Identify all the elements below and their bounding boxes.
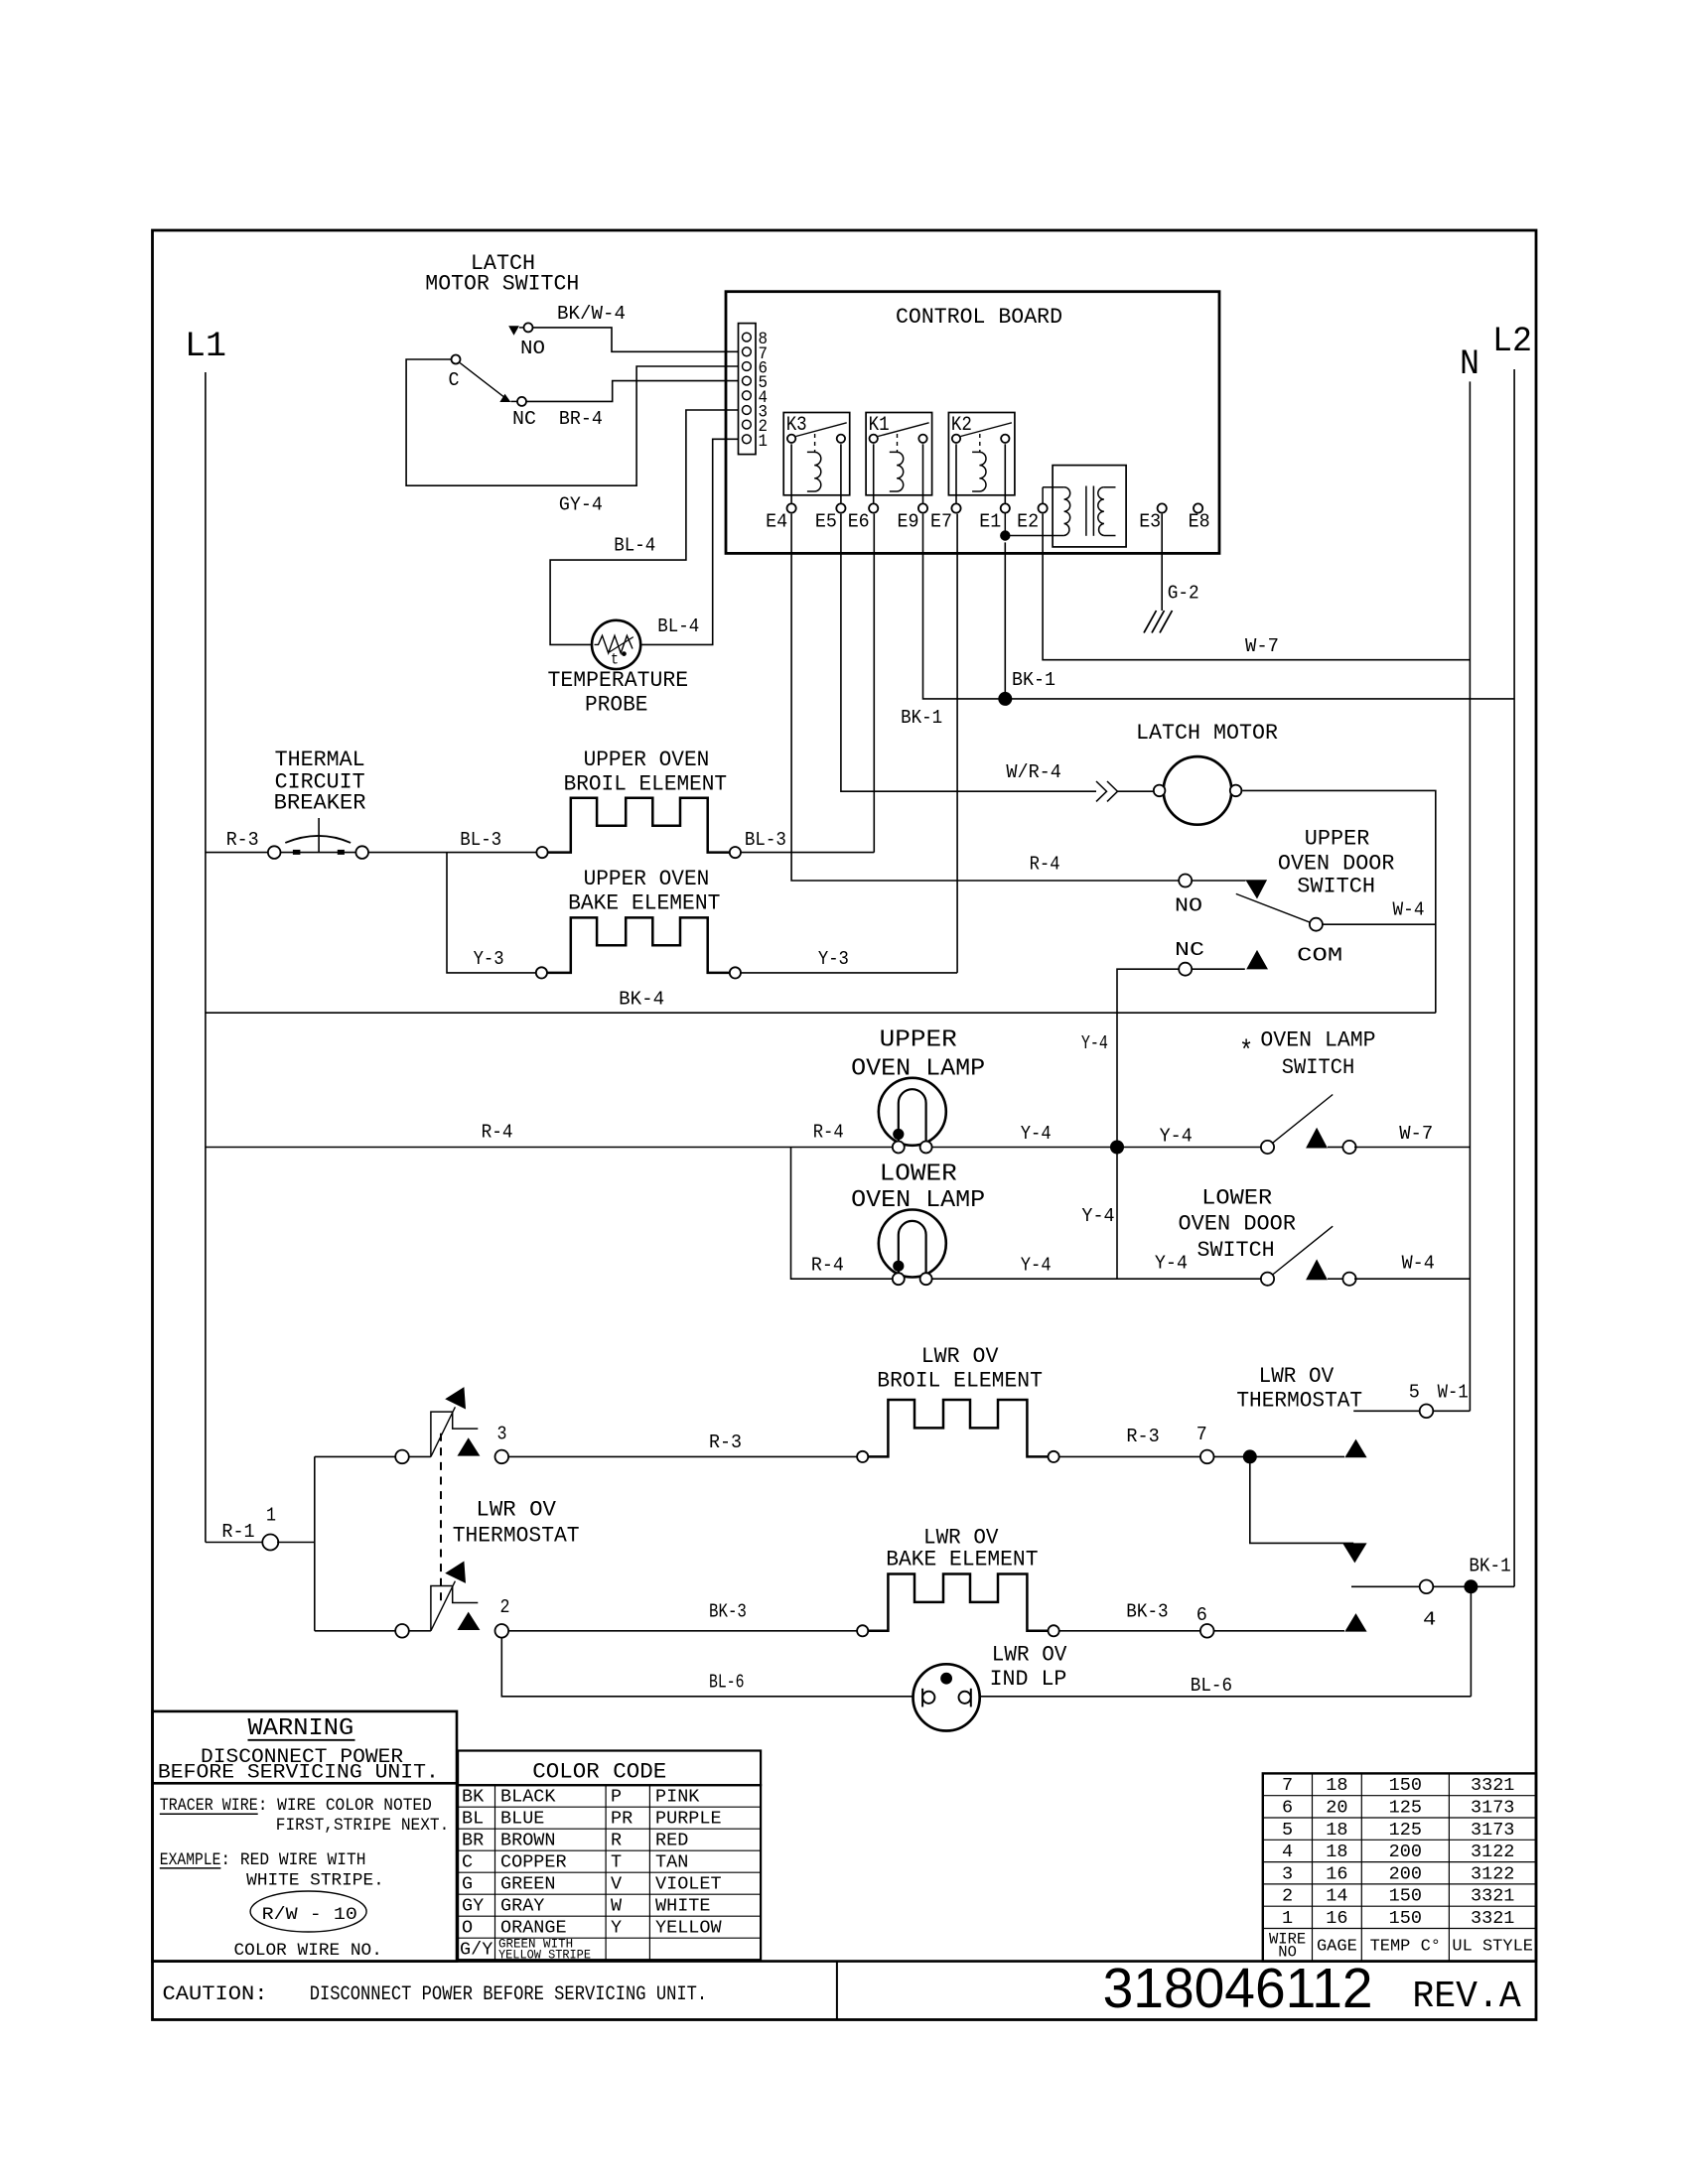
svg-text:BK-1: BK-1: [901, 707, 942, 729]
svg-text:150: 150: [1389, 1775, 1422, 1796]
svg-text:20: 20: [1326, 1798, 1347, 1819]
wire Y-4 lower lamp line: [932, 1148, 1262, 1280]
wire L1 rail: [205, 372, 207, 1543]
svg-text:BK: BK: [462, 1787, 485, 1808]
lwr ov thermostat switch upper (3): [395, 1387, 508, 1463]
svg-text:BLACK: BLACK: [500, 1787, 556, 1808]
svg-text:MOTOR SWITCH: MOTOR SWITCH: [425, 272, 579, 297]
svg-text:R-4: R-4: [813, 1122, 844, 1144]
thermal circuit breaker CB1: [268, 748, 368, 859]
wire R-4 E4 to door switch NO: [791, 514, 1180, 881]
svg-text:L1: L1: [185, 327, 226, 366]
svg-text:Y-4: Y-4: [1081, 1205, 1114, 1227]
svg-text:BREAKER: BREAKER: [274, 791, 366, 816]
wire BL-6 lamp to junction: [980, 1586, 1472, 1697]
svg-text:1: 1: [759, 432, 769, 452]
node N: [1460, 344, 1479, 384]
svg-text:BK-1: BK-1: [1469, 1555, 1510, 1576]
svg-text:BL-3: BL-3: [460, 829, 501, 851]
svg-text:R: R: [611, 1831, 622, 1851]
svg-text:YELLOW: YELLOW: [655, 1918, 723, 1939]
lwr ov broil element R3: [857, 1344, 1059, 1462]
svg-text:R-3: R-3: [709, 1432, 742, 1453]
svg-text:E1: E1: [979, 511, 1001, 533]
temperature probe RT1: [548, 620, 689, 718]
wire W-4 COM to rail: [1322, 899, 1435, 925]
svg-text:3: 3: [1282, 1863, 1293, 1884]
svg-text:5: 5: [1409, 1382, 1420, 1404]
svg-text:THERMOSTAT: THERMOSTAT: [453, 1524, 580, 1549]
wire GY-4: [406, 359, 738, 516]
svg-text:BL-6: BL-6: [709, 1672, 745, 1694]
svg-text:R-4: R-4: [811, 1255, 844, 1277]
svg-text:Y-4: Y-4: [1081, 1032, 1108, 1054]
upper oven broil element R1: [536, 748, 741, 858]
wire BL-4 pin3 to probe: [550, 410, 738, 644]
svg-text:UPPER: UPPER: [880, 1027, 957, 1054]
wire E1 to transformer / junction: [1000, 513, 1053, 541]
svg-text:BR-4: BR-4: [559, 408, 603, 430]
wire N rail: [1469, 381, 1471, 1411]
svg-text:16: 16: [1326, 1863, 1347, 1884]
wire G-2: [1162, 514, 1199, 611]
board terminals E4 E5 E6 E9 E7 E1 E2 E3 E8: [766, 503, 1210, 532]
svg-text:SWITCH: SWITCH: [1297, 875, 1375, 899]
svg-text:W-4: W-4: [1393, 899, 1425, 921]
relay K1: [866, 413, 932, 503]
wire motor to W-4 rail: [1242, 790, 1436, 1013]
transformer T1: [1053, 466, 1126, 547]
svg-text:t: t: [611, 650, 619, 668]
thermostat contact triangle (down): [1342, 1543, 1367, 1563]
svg-text:4: 4: [1282, 1842, 1293, 1862]
svg-text:BEFORE SERVICING UNIT.: BEFORE SERVICING UNIT.: [158, 1762, 439, 1785]
svg-text:BK-3: BK-3: [1126, 1600, 1168, 1622]
wire BK-1 terminal 4 to L2: [1351, 1555, 1514, 1630]
svg-text:N: N: [1460, 344, 1479, 384]
svg-text:150: 150: [1389, 1908, 1422, 1929]
svg-text:R-4: R-4: [1030, 853, 1060, 875]
svg-text:O: O: [462, 1918, 473, 1939]
svg-text:BROWN: BROWN: [500, 1831, 556, 1851]
svg-text:125: 125: [1389, 1820, 1422, 1841]
svg-text:BL: BL: [462, 1809, 484, 1830]
svg-text:200: 200: [1389, 1842, 1422, 1862]
svg-text:UL STYLE: UL STYLE: [1452, 1938, 1533, 1957]
terminal 2 label: [500, 1596, 510, 1618]
svg-text:NO: NO: [520, 338, 545, 359]
color wire no caption: [234, 1941, 382, 1961]
svg-text:*: *: [1239, 1036, 1253, 1067]
junction E1/BK-1: [998, 692, 1012, 706]
svg-text:V: V: [611, 1874, 622, 1895]
junction BK-1 / BL-6: [1464, 1579, 1477, 1593]
wire W-4 lower switch to N: [1354, 1252, 1470, 1279]
thermostat link (dashed): [440, 1433, 442, 1606]
svg-text:E7: E7: [930, 511, 952, 533]
wire BL-3 breaker to broil: [368, 829, 536, 853]
wire R-3 thermostat to lwr broil: [508, 1432, 857, 1456]
svg-text:: WIRE COLOR NOTED: : WIRE COLOR NOTED: [258, 1796, 432, 1816]
svg-text:THERMOSTAT: THERMOSTAT: [1236, 1389, 1362, 1414]
svg-text:REV.A: REV.A: [1412, 1976, 1520, 2018]
svg-text:2: 2: [1282, 1886, 1293, 1907]
svg-text:6: 6: [1282, 1798, 1293, 1819]
svg-text:LWR OV: LWR OV: [1259, 1364, 1335, 1389]
svg-text:2: 2: [500, 1596, 510, 1618]
svg-text:3: 3: [497, 1423, 507, 1444]
svg-text:18: 18: [1326, 1842, 1347, 1862]
svg-text:318046112: 318046112: [1103, 1957, 1373, 2020]
junction at terminal 7: [1243, 1449, 1257, 1463]
svg-text:3321: 3321: [1471, 1908, 1514, 1929]
svg-text:IND LP: IND LP: [990, 1667, 1067, 1692]
wire Y-4 NC down: [1081, 969, 1180, 1147]
svg-text:7: 7: [1196, 1424, 1207, 1445]
wire BL-4 probe to pin1: [640, 439, 738, 644]
wire BL-3 broil to E6: [741, 514, 874, 853]
svg-text:BK-1: BK-1: [1012, 669, 1055, 691]
upper oven bake element R2: [536, 867, 741, 978]
svg-text:G: G: [462, 1874, 473, 1895]
terminal 3 label: [497, 1423, 507, 1444]
lwr ov bake element R4: [857, 1525, 1059, 1636]
lwr ov thermostat switch lower (2): [395, 1562, 508, 1638]
svg-text:G/Y: G/Y: [460, 1940, 492, 1961]
svg-text:14: 14: [1326, 1886, 1347, 1907]
wire gauge table: [1263, 1773, 1536, 1961]
svg-text:TRACER WIRE: TRACER WIRE: [160, 1796, 258, 1816]
svg-text:EXAMPLE: EXAMPLE: [160, 1850, 221, 1870]
svg-text:E3: E3: [1139, 511, 1161, 533]
thermostat contact triangle (up, broil): [1344, 1439, 1366, 1458]
wire terminal1 to thermostat branches: [277, 1456, 395, 1630]
svg-text:BR: BR: [462, 1831, 484, 1851]
svg-text:W-4: W-4: [1402, 1252, 1435, 1274]
svg-text:TEMPERATURE: TEMPERATURE: [548, 668, 689, 693]
svg-text:Y-3: Y-3: [474, 948, 504, 970]
svg-text:TEMP C°: TEMP C°: [1370, 1938, 1441, 1957]
svg-text:G-2: G-2: [1168, 583, 1199, 605]
terminal 6: [1196, 1604, 1214, 1638]
svg-text:E9: E9: [898, 511, 919, 533]
svg-text:LWR OV: LWR OV: [476, 1498, 556, 1523]
svg-text:Y-4: Y-4: [1021, 1123, 1052, 1145]
svg-text:GREEN: GREEN: [500, 1874, 556, 1895]
svg-text:GAGE: GAGE: [1317, 1938, 1357, 1957]
color code table: [458, 1751, 761, 1963]
svg-text:Y: Y: [611, 1918, 622, 1939]
upper oven lamp DS1: [851, 1027, 985, 1154]
svg-text:3122: 3122: [1471, 1842, 1514, 1862]
svg-text:W/R-4: W/R-4: [1006, 761, 1061, 783]
svg-text:GY: GY: [462, 1896, 484, 1917]
svg-text:OVEN LAMP: OVEN LAMP: [1260, 1028, 1375, 1053]
junction Y-4: [1110, 1141, 1124, 1155]
svg-text:16: 16: [1326, 1908, 1347, 1929]
svg-text:PROBE: PROBE: [585, 693, 648, 718]
svg-text:CAUTION:: CAUTION:: [163, 1983, 268, 2006]
svg-text:COPPER: COPPER: [500, 1852, 567, 1873]
control board box: [726, 292, 1219, 554]
svg-text:W-1: W-1: [1438, 1382, 1469, 1404]
wire W/R-4 E5 to motor: [841, 514, 1153, 802]
lower oven door switch S4: [1179, 1186, 1356, 1286]
ground symbol: [1144, 611, 1173, 633]
wire BR-4: [526, 381, 739, 431]
border frame: [153, 230, 1537, 2020]
terminal 1: [262, 1504, 278, 1550]
svg-text:1: 1: [1282, 1908, 1293, 1929]
svg-text:RED: RED: [655, 1831, 688, 1851]
wire E2 to transformer primary: [1043, 487, 1053, 504]
svg-text:UPPER OVEN: UPPER OVEN: [584, 867, 710, 891]
svg-text:OVEN DOOR: OVEN DOOR: [1179, 1212, 1297, 1237]
wire R-4 upper lamp line: [206, 1122, 893, 1148]
wire R-3 L1 to breaker: [206, 829, 268, 853]
svg-text:LOWER: LOWER: [1201, 1186, 1272, 1211]
warning box: [153, 1711, 458, 1962]
svg-text:18: 18: [1326, 1820, 1347, 1841]
svg-text:GY-4: GY-4: [559, 494, 603, 516]
svg-text:W-7: W-7: [1245, 635, 1279, 657]
wire BL-6 terminal2 to lamp: [501, 1638, 913, 1697]
caution strip: [153, 1962, 1537, 2020]
svg-text:TAN: TAN: [655, 1852, 688, 1873]
svg-text:BLUE: BLUE: [500, 1809, 544, 1830]
svg-text:W-7: W-7: [1399, 1123, 1433, 1145]
svg-text:BK-3: BK-3: [709, 1601, 747, 1623]
upper oven door switch S2: [1175, 826, 1394, 975]
svg-text:UPPER: UPPER: [1305, 826, 1370, 851]
svg-text:LATCH MOTOR: LATCH MOTOR: [1136, 721, 1278, 746]
oven lamp switch S3: [1239, 1028, 1376, 1155]
svg-text:C: C: [449, 369, 460, 391]
svg-text:K1: K1: [869, 414, 890, 437]
svg-text:E8: E8: [1189, 511, 1210, 533]
latch motor M1: [1136, 721, 1278, 825]
svg-text:DISCONNECT POWER BEFORE SERVIC: DISCONNECT POWER BEFORE SERVICING UNIT.: [310, 1983, 708, 2006]
svg-text:NC: NC: [1175, 939, 1204, 961]
svg-text:R-3: R-3: [226, 829, 259, 851]
svg-text:SWITCH: SWITCH: [1282, 1055, 1354, 1080]
wire R-4 branch to lower lamp: [791, 1148, 893, 1280]
svg-text:K2: K2: [951, 414, 972, 437]
svg-text:E5: E5: [815, 511, 837, 533]
wire BK-4 L1 to W-4 rail: [206, 988, 1436, 1013]
svg-text:5: 5: [1282, 1820, 1293, 1841]
svg-text:PURPLE: PURPLE: [655, 1809, 722, 1830]
svg-text:3122: 3122: [1471, 1863, 1514, 1884]
svg-text:7: 7: [1282, 1775, 1293, 1796]
wire W-1 terminal 5 to N: [1353, 1382, 1470, 1418]
wire Y-4 lamp to junction: [932, 1123, 1262, 1148]
svg-text:1: 1: [266, 1504, 276, 1526]
svg-text:COM: COM: [1297, 945, 1342, 967]
wire junction7 down to NC contact: [1250, 1456, 1353, 1543]
svg-text:R-1: R-1: [221, 1521, 254, 1543]
latch motor switch label: [425, 251, 579, 297]
svg-text:VIOLET: VIOLET: [655, 1874, 722, 1895]
wire BK/W-4: [533, 303, 739, 351]
svg-text:150: 150: [1389, 1886, 1422, 1907]
thermostat contact triangle (up, bake): [1344, 1613, 1366, 1632]
terminal 7: [1196, 1424, 1214, 1463]
wire R-1 L1 to terminal 1: [206, 1521, 264, 1543]
svg-text:R-3: R-3: [1126, 1426, 1159, 1447]
svg-text:: RED WIRE WITH: : RED WIRE WITH: [220, 1850, 365, 1870]
relay K3: [783, 413, 850, 503]
svg-text:CONTROL BOARD: CONTROL BOARD: [896, 305, 1062, 330]
svg-text:WHITE: WHITE: [655, 1896, 711, 1917]
svg-text:BK/W-4: BK/W-4: [557, 303, 626, 325]
svg-text:4: 4: [1423, 1609, 1436, 1631]
svg-text:WHITE STRIPE.: WHITE STRIPE.: [246, 1870, 384, 1890]
svg-text:200: 200: [1389, 1863, 1422, 1884]
lwr ov thermostat label (right): [1236, 1364, 1362, 1413]
wire Y-3 bake to E7: [741, 514, 957, 973]
svg-text:BROIL ELEMENT: BROIL ELEMENT: [564, 772, 728, 797]
svg-text:R-4: R-4: [482, 1122, 513, 1144]
svg-text:LWR OV: LWR OV: [992, 1642, 1067, 1667]
wire W-7 lamp switch to N: [1354, 1123, 1470, 1148]
svg-text:W: W: [611, 1896, 623, 1917]
lwr ov indicator lamp DS3: [914, 1642, 1068, 1730]
svg-text:18: 18: [1326, 1775, 1347, 1796]
svg-text:SWITCH: SWITCH: [1197, 1238, 1275, 1263]
svg-text:L2: L2: [1492, 322, 1532, 361]
svg-text:LOWER: LOWER: [880, 1161, 957, 1188]
svg-text:BL-3: BL-3: [745, 829, 786, 851]
svg-text:3321: 3321: [1471, 1886, 1514, 1907]
node L2: [1492, 322, 1532, 361]
svg-text:3173: 3173: [1471, 1798, 1514, 1819]
svg-text:R/W - 10: R/W - 10: [262, 1905, 357, 1925]
svg-text:E2: E2: [1017, 511, 1039, 533]
svg-text:C: C: [462, 1852, 473, 1873]
svg-text:125: 125: [1389, 1798, 1422, 1819]
svg-text:BK-4: BK-4: [619, 988, 664, 1010]
svg-text:UPPER OVEN: UPPER OVEN: [584, 748, 710, 772]
svg-text:BL-6: BL-6: [1191, 1675, 1232, 1697]
wire terminal 6 to thermostat contact: [1214, 1630, 1345, 1632]
svg-text:FIRST,STRIPE NEXT.: FIRST,STRIPE NEXT.: [276, 1816, 450, 1836]
svg-text:BAKE ELEMENT: BAKE ELEMENT: [886, 1548, 1038, 1572]
svg-text:BAKE ELEMENT: BAKE ELEMENT: [568, 891, 720, 916]
wire BK-3 lwr bake to terminal 6: [1059, 1600, 1200, 1630]
svg-text:E4: E4: [766, 511, 787, 533]
svg-text:3321: 3321: [1471, 1775, 1514, 1796]
svg-text:E6: E6: [848, 511, 870, 533]
svg-text:LWR OV: LWR OV: [921, 1344, 1000, 1369]
svg-text:Y-4: Y-4: [1155, 1252, 1188, 1274]
relay K2: [948, 413, 1015, 503]
svg-text:K3: K3: [786, 414, 807, 437]
wire terminal 7 to thermostat contact: [1214, 1455, 1345, 1457]
wire W-7 E2 to N: [1043, 514, 1470, 660]
svg-text:T: T: [611, 1852, 622, 1873]
svg-text:NO: NO: [1175, 895, 1202, 917]
svg-text:NC: NC: [512, 408, 536, 430]
svg-text:ORANGE: ORANGE: [500, 1918, 567, 1939]
svg-text:COLOR WIRE NO.: COLOR WIRE NO.: [234, 1941, 382, 1961]
svg-text:Y-4: Y-4: [1160, 1125, 1193, 1147]
node L1: [185, 327, 226, 366]
lwr ov thermostat label (left): [453, 1498, 580, 1549]
svg-text:PR: PR: [611, 1809, 633, 1830]
svg-text:6: 6: [1196, 1604, 1207, 1626]
svg-text:BL-4: BL-4: [614, 534, 655, 556]
svg-text:PINK: PINK: [655, 1787, 700, 1808]
latch motor switch S1: [449, 323, 546, 430]
svg-text:WARNING: WARNING: [248, 1715, 354, 1742]
example wire code R/W - 10: [250, 1891, 366, 1932]
svg-text:P: P: [611, 1787, 622, 1808]
tracer wire note: [160, 1796, 450, 1890]
lower oven lamp DS2: [851, 1161, 985, 1286]
connector P1 pins 1-8: [739, 324, 769, 455]
svg-text:OVEN DOOR: OVEN DOOR: [1278, 851, 1395, 876]
wire BK-3 thermostat to lwr bake: [508, 1601, 857, 1631]
wire R-3 lwr broil to terminal 7: [1059, 1426, 1200, 1456]
svg-text:COLOR CODE: COLOR CODE: [532, 1760, 666, 1785]
wire Y-3 branch to bake: [447, 853, 536, 973]
svg-text:3173: 3173: [1471, 1820, 1514, 1841]
svg-text:Y-4: Y-4: [1021, 1255, 1052, 1277]
svg-text:BL-4: BL-4: [657, 615, 699, 637]
wire L2 rail: [1513, 369, 1515, 1586]
wire BK-1 E9 to L2: [901, 514, 1514, 729]
svg-text:Y-3: Y-3: [818, 948, 849, 970]
svg-text:GRAY: GRAY: [500, 1896, 544, 1917]
part number 318046112: [1103, 1957, 1521, 2020]
svg-text:BROIL ELEMENT: BROIL ELEMENT: [877, 1369, 1043, 1394]
